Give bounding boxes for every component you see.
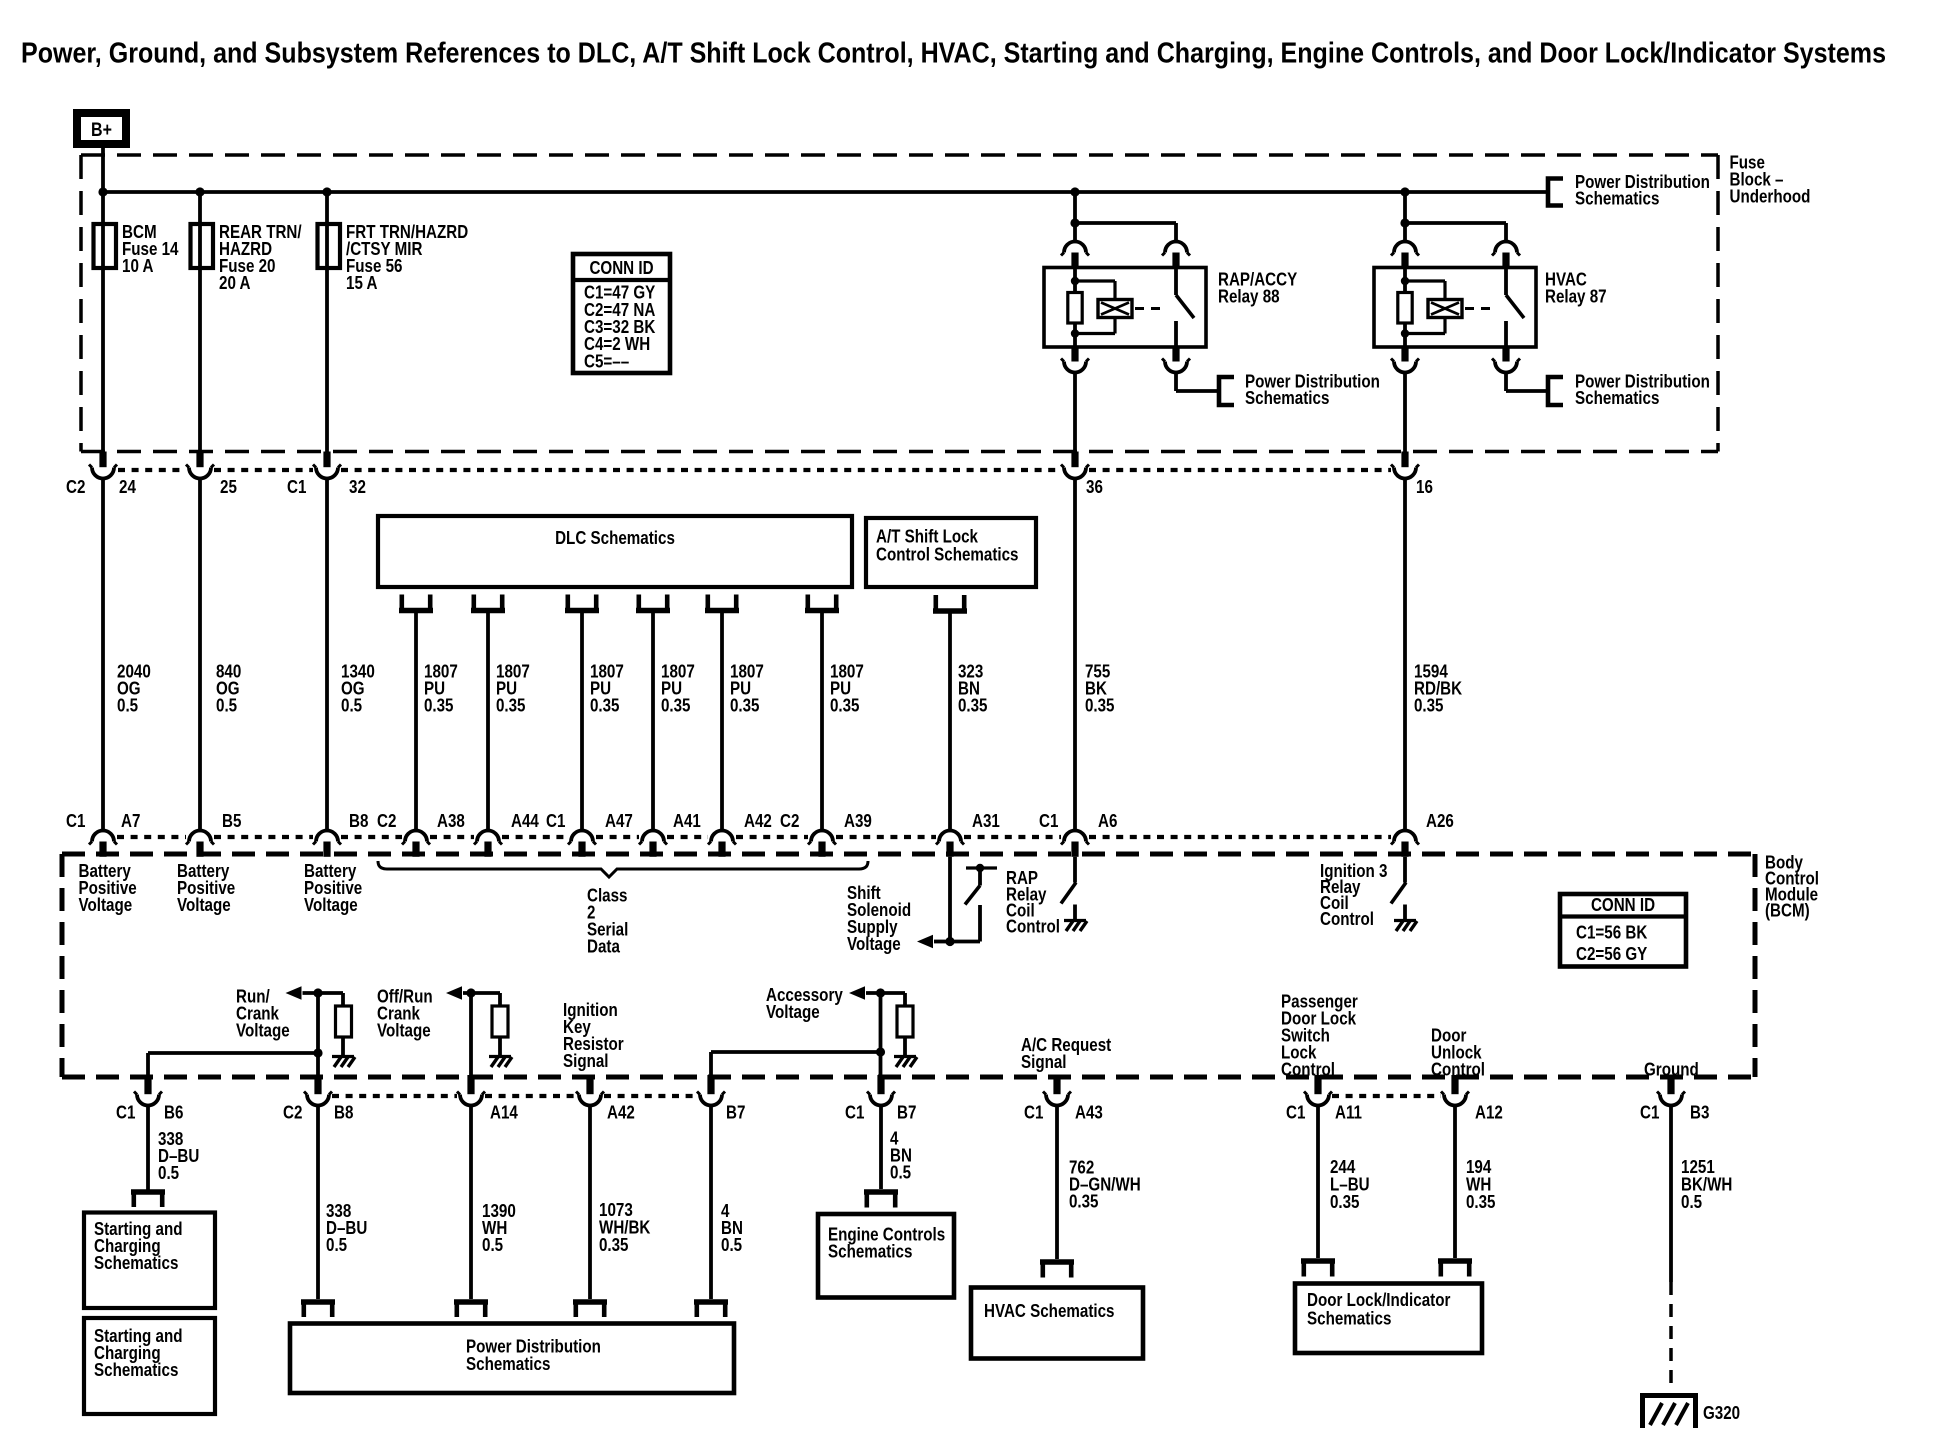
node relay coil top (RAP/ACCY relay 88) <box>1071 277 1079 285</box>
wire 1807 PU x=582 <box>580 613 584 831</box>
svg-text:CONN ID: CONN ID <box>1591 895 1655 915</box>
label wire 1807 PU <box>661 661 695 715</box>
svg-text:0.35: 0.35 <box>830 695 860 715</box>
connector stub A14 to Power Distribution <box>454 1302 488 1317</box>
label wire 1594 RD/BK <box>1414 661 1462 715</box>
label wire 1251 BK/WH 0.5 <box>1681 1157 1732 1212</box>
svg-text:0.35: 0.35 <box>424 695 454 715</box>
svg-text:C5=––: C5=–– <box>584 351 629 371</box>
svg-text:0.35: 0.35 <box>1466 1192 1496 1212</box>
label pin A47 (row2) <box>605 811 633 831</box>
Door Lock/Indicator Schematics box <box>1295 1284 1482 1354</box>
label pin A7 (row2) <box>121 811 140 831</box>
svg-text:Schematics: Schematics <box>94 1360 178 1380</box>
svg-text:Door Lock/Indicator: Door Lock/Indicator <box>1307 1290 1450 1310</box>
connector relay pin right bottom (RAP/ACCY relay 88) <box>1162 347 1190 373</box>
connector terminal x=103 (BCM top) <box>89 831 117 857</box>
svg-text:0.5: 0.5 <box>341 695 362 715</box>
Starting and Charging Schematics box 2 <box>84 1318 215 1414</box>
label pin A6 (row2) <box>1098 811 1117 831</box>
resistor relay coil suppression (HVAC relay 87) <box>1398 293 1412 324</box>
resistor Off/Run pull-up <box>492 993 508 1057</box>
wire HVAC relay out to off-page ref <box>1506 373 1548 392</box>
label wire 762 D-GN/WH 0.35 <box>1069 1157 1141 1211</box>
svg-text:0.35: 0.35 <box>958 695 988 715</box>
relay mechanical dashed link (RAP/ACCY relay 88) <box>1135 307 1167 310</box>
svg-text:C2: C2 <box>283 1103 302 1123</box>
wire 1251 BK/WH (B3) <box>1669 1106 1673 1283</box>
svg-text:Schematics: Schematics <box>828 1241 912 1261</box>
label pin A39 (row2) <box>844 811 872 831</box>
svg-text:0.35: 0.35 <box>590 695 620 715</box>
label pin C1 (row3) <box>116 1103 135 1123</box>
label REAR TRN/HAZRD Fuse 20 20A <box>219 222 302 293</box>
ground A6 driver <box>1064 921 1087 932</box>
relay box (RAP/ACCY relay 88) <box>1044 268 1206 348</box>
connector stub to HVAC Schematics <box>1040 1262 1074 1278</box>
connector DLC pin stub x=416 <box>399 595 433 611</box>
node Accessory-B7 link junction <box>876 1047 885 1056</box>
label wire 1807 PU <box>424 661 458 715</box>
connector terminal x=200 (fuse block bottom) <box>186 452 214 479</box>
node bus-fuse56 <box>322 187 331 196</box>
svg-text:36: 36 <box>1086 477 1103 497</box>
label pin A11 (row3) <box>1335 1103 1362 1123</box>
svg-text:25: 25 <box>220 477 237 497</box>
svg-text:B8: B8 <box>334 1103 353 1123</box>
off-page reference Power Distribution Schematics (under HVAC relay) <box>1548 371 1710 408</box>
svg-text:0.5: 0.5 <box>721 1235 742 1255</box>
connector terminal x=711 (BCM bottom) <box>697 1075 725 1106</box>
relay mechanical dashed link (HVAC relay 87) <box>1465 307 1497 310</box>
svg-text:20 A: 20 A <box>219 273 251 293</box>
wire 338 D-BU (B6) <box>146 1106 150 1190</box>
svg-text:Schematics: Schematics <box>1245 388 1329 408</box>
svg-text:0.5: 0.5 <box>216 695 237 715</box>
label wire 4 BN 0.5 (B7) <box>721 1201 743 1255</box>
label pin 32 <box>349 477 366 497</box>
connector C1/C2 inline dotted line (BCM bottom) <box>332 1094 1441 1098</box>
label pin C2 (row2) <box>377 811 396 831</box>
svg-text:C1=56 BK: C1=56 BK <box>1576 922 1647 942</box>
label C1 (row1) <box>287 477 306 497</box>
svg-text:Schematics: Schematics <box>466 1354 550 1374</box>
label wire 1390 WH 0.5 <box>482 1201 516 1255</box>
svg-text:C1: C1 <box>116 1103 135 1123</box>
svg-text:A14: A14 <box>490 1103 518 1123</box>
relay switch (RAP/ACCY relay 88) <box>1176 268 1194 348</box>
resistor relay coil suppression (RAP/ACCY relay 88) <box>1068 293 1082 324</box>
label wire 194 WH 0.35 <box>1466 1157 1496 1212</box>
connector terminal x=1405 (BCM top) <box>1391 831 1419 857</box>
svg-text:CONN ID: CONN ID <box>589 258 653 278</box>
wire Off/Run to A14 pin <box>469 993 473 1077</box>
wire 323 BN <box>948 613 952 831</box>
wire Run/Crank horizontal <box>303 991 344 995</box>
wire relay top jumper (HVAC relay 87) <box>1405 223 1506 241</box>
connector A/T shift lock pin stub <box>933 595 967 611</box>
label Battery Positive Voltage (A7) <box>79 861 137 915</box>
label wire 1073 WH/BK 0.35 <box>599 1200 650 1255</box>
label FRT TRN/HAZRD Fuse 56 15A <box>346 222 468 293</box>
label pin C1 (row3) <box>1640 1103 1659 1123</box>
wire relay coil parallel branch (RAP/ACCY relay 88) <box>1075 281 1115 334</box>
svg-text:A44: A44 <box>511 811 539 831</box>
node bus-fuse14 <box>98 187 107 196</box>
label pin B7 (row3) <box>897 1103 916 1123</box>
wire Run/Crank to B8 pin <box>316 993 320 1077</box>
label pin A41 (row2) <box>673 811 701 831</box>
connector terminal x=1057 (BCM bottom) <box>1043 1075 1071 1106</box>
connector C1/C2 inline dotted line (BCM top) <box>117 835 1391 839</box>
label Battery Positive Voltage (B8) <box>304 861 362 915</box>
svg-text:A38: A38 <box>437 811 465 831</box>
svg-text:A6: A6 <box>1098 811 1117 831</box>
svg-text:0.35: 0.35 <box>599 1235 629 1255</box>
arrow Run/Crank voltage <box>286 986 302 1000</box>
svg-text:0.35: 0.35 <box>661 695 691 715</box>
wire 244 L-BU (A11) <box>1316 1106 1320 1259</box>
svg-text:Voltage: Voltage <box>847 934 901 954</box>
switch Ignition 3 relay coil control driver <box>1391 883 1406 904</box>
wire 1807 PU x=416 <box>414 613 418 831</box>
svg-text:16: 16 <box>1416 477 1433 497</box>
label Run/Crank Voltage <box>236 986 290 1040</box>
Starting and Charging Schematics box 1 <box>84 1213 215 1309</box>
label Door Unlock Control <box>1431 1025 1485 1079</box>
wire 4 BN (B7) <box>709 1106 713 1300</box>
connector DLC pin stub x=653 <box>636 595 670 611</box>
svg-text:Control: Control <box>1320 909 1374 929</box>
connector relay pin right top (RAP/ACCY relay 88) <box>1162 242 1190 268</box>
svg-text:0.5: 0.5 <box>158 1163 179 1183</box>
wire 1073 WH/BK (A42) <box>588 1106 592 1300</box>
svg-text:0.35: 0.35 <box>496 695 526 715</box>
svg-text:DLC Schematics: DLC Schematics <box>555 528 675 548</box>
label Off/Run Crank Voltage <box>377 986 433 1040</box>
label pin A14 (row3) <box>490 1103 518 1123</box>
relay coil solenoid box (RAP/ACCY relay 88) <box>1098 300 1132 318</box>
connector terminal x=1671 (BCM bottom) <box>1657 1075 1685 1106</box>
svg-text:C1: C1 <box>1286 1103 1305 1123</box>
connector terminal x=822 (BCM top) <box>808 831 836 857</box>
connector terminal x=950 (BCM top) <box>936 831 964 857</box>
label pin B6 (row3) <box>164 1103 183 1123</box>
relay coil wire left (HVAC relay 87) <box>1403 268 1407 348</box>
label pin C1 (row2) <box>66 811 85 831</box>
svg-text:B6: B6 <box>164 1103 183 1123</box>
svg-text:C1: C1 <box>546 811 565 831</box>
wire A26 switch to ground <box>1403 905 1407 921</box>
svg-text:0.5: 0.5 <box>326 1235 347 1255</box>
wire Ignition 3 relay coil control (A26) <box>1403 857 1407 883</box>
label wire 338 D-BU 0.5 (B6) <box>158 1129 199 1183</box>
wire fuse20 vertical <box>198 192 202 452</box>
connector terminal x=1075 (BCM top) <box>1061 831 1089 857</box>
svg-text:Underhood: Underhood <box>1730 186 1811 206</box>
Power Distribution Schematics box <box>290 1324 734 1394</box>
connector stub B8 to Power Distribution <box>301 1302 335 1317</box>
label pin C2 (row3) <box>283 1103 302 1123</box>
wire fuse14 vertical <box>101 192 105 452</box>
off-page reference Power Distribution Schematics (under RAP relay) <box>1219 371 1380 408</box>
connector terminal x=653 (BCM top) <box>639 831 667 857</box>
svg-text:Voltage: Voltage <box>79 895 133 915</box>
switch RAP relay coil control <box>965 864 997 905</box>
arrow Off/Run Crank voltage <box>446 986 462 1000</box>
svg-text:Signal: Signal <box>1021 1052 1067 1072</box>
svg-text:15 A: 15 A <box>346 273 378 293</box>
wire Accessory horizontal <box>866 991 905 995</box>
connector terminal x=416 (BCM top) <box>402 831 430 857</box>
relay switch (HVAC relay 87) <box>1506 268 1524 348</box>
resistor Run/Crank pull-up <box>336 993 352 1057</box>
svg-text:10 A: 10 A <box>122 256 154 276</box>
svg-text:0.35: 0.35 <box>1414 695 1444 715</box>
label pin A42 (row2) <box>744 811 772 831</box>
connector terminal x=1318 (BCM bottom) <box>1304 1075 1332 1106</box>
connector terminal x=881 (BCM bottom) <box>867 1075 895 1106</box>
label pin 24 <box>119 477 136 497</box>
wire 2040 OG <box>101 479 105 832</box>
svg-text:C2=56 GY: C2=56 GY <box>1576 944 1647 964</box>
svg-text:HVAC Schematics: HVAC Schematics <box>984 1301 1115 1321</box>
node relay coil bottom (RAP/ACCY relay 88) <box>1071 329 1079 337</box>
svg-text:C1: C1 <box>1039 811 1058 831</box>
label Ignition 3 Relay Coil Control <box>1320 861 1388 929</box>
connector stub to Engine Controls <box>864 1192 898 1208</box>
node relay coil bottom (HVAC relay 87) <box>1401 329 1409 337</box>
svg-text:Voltage: Voltage <box>236 1020 290 1040</box>
ground Accessory resistor <box>894 1057 917 1068</box>
wire RAP relay coil control (A6) <box>1073 857 1077 883</box>
svg-text:A42: A42 <box>744 811 772 831</box>
wire relay top jumper (RAP/ACCY relay 88) <box>1075 223 1176 241</box>
wire 194 WH (A12) <box>1453 1106 1457 1259</box>
connector terminal x=103 (fuse block bottom) <box>89 452 117 479</box>
Body Control Module dashed boundary <box>62 854 1755 1077</box>
label pin B5 (row2) <box>222 811 241 831</box>
connector DLC pin stub x=722 <box>705 595 739 611</box>
label pin A26 (row2) <box>1426 811 1454 831</box>
connector relay pin right bottom (HVAC relay 87) <box>1492 347 1520 373</box>
svg-text:C1: C1 <box>1640 1103 1659 1123</box>
node relay jumper (RAP/ACCY relay 88) <box>1070 218 1079 227</box>
connector terminal x=590 (BCM bottom) <box>576 1075 604 1106</box>
svg-text:A/T Shift Lock: A/T Shift Lock <box>876 526 979 546</box>
svg-text:B8: B8 <box>349 811 368 831</box>
label wire 1807 PU <box>496 661 530 715</box>
label pin C1 (row2) <box>1039 811 1058 831</box>
wire 1807 PU x=822 <box>820 613 824 831</box>
node bus-hvac-relay <box>1400 187 1409 196</box>
connector relay pin left top (RAP/ACCY relay 88) <box>1061 242 1089 268</box>
label A/C Request Signal <box>1021 1035 1111 1072</box>
label BCM Fuse 14 10A <box>122 222 179 276</box>
label RAP/ACCY Relay 88 <box>1218 269 1297 306</box>
label Body Control Module (BCM) <box>1765 852 1819 920</box>
connector relay pin left bottom (RAP/ACCY relay 88) <box>1061 347 1089 373</box>
arrow Accessory voltage <box>849 986 865 1000</box>
svg-text:Control Schematics: Control Schematics <box>876 544 1019 564</box>
label pin 25 <box>220 477 237 497</box>
label wire 755 BK <box>1085 661 1115 715</box>
svg-text:0.35: 0.35 <box>1330 1192 1360 1212</box>
label Class 2 Serial Data <box>587 885 628 956</box>
diagram title <box>21 38 1886 70</box>
svg-text:24: 24 <box>119 477 136 497</box>
Fuse Block - Underhood dashed boundary <box>81 155 1718 452</box>
svg-text:Schematics: Schematics <box>1575 188 1659 208</box>
label Shift Solenoid Supply Voltage <box>847 883 911 954</box>
svg-text:C1: C1 <box>287 477 306 497</box>
label pin A12 (row3) <box>1475 1103 1503 1123</box>
label pin A38 (row2) <box>437 811 465 831</box>
svg-text:B5: B5 <box>222 811 241 831</box>
label pin B8 (row3) <box>334 1103 353 1123</box>
connector terminal x=488 (BCM top) <box>474 831 502 857</box>
wire 755 BK <box>1073 479 1077 832</box>
wire Off/Run horizontal <box>463 991 500 995</box>
label Accessory Voltage <box>766 985 843 1022</box>
svg-text:32: 32 <box>349 477 366 497</box>
label wire 4 BN 0.5 (C1 B7) <box>890 1128 912 1182</box>
svg-text:A11: A11 <box>1335 1103 1362 1123</box>
connector stub A42 to Power Distribution <box>573 1302 607 1317</box>
relay coil solenoid box (HVAC relay 87) <box>1428 300 1462 318</box>
HVAC Schematics box <box>971 1288 1143 1359</box>
svg-text:B7: B7 <box>897 1103 916 1123</box>
svg-text:Signal: Signal <box>563 1051 609 1071</box>
label Ignition Key Resistor Signal <box>563 1000 624 1071</box>
connector relay pin right top (HVAC relay 87) <box>1492 242 1520 268</box>
fuse REAR TRN/HAZRD Fuse 20 <box>191 224 214 268</box>
label pin A44 (row2) <box>511 811 539 831</box>
connector DLC pin stub x=488 <box>471 595 505 611</box>
DLC Schematics box <box>378 516 852 587</box>
connector C2/C1 inline dotted line (fuse block bottom) <box>118 468 1391 472</box>
node relay coil top (HVAC relay 87) <box>1401 277 1409 285</box>
label G320 <box>1703 1403 1740 1423</box>
wire HVAC relay output down <box>1403 373 1407 452</box>
node relay jumper (HVAC relay 87) <box>1400 218 1409 227</box>
wire 1390 WH (A14) <box>469 1106 473 1300</box>
label Ground <box>1644 1060 1699 1080</box>
arrow shift solenoid supply voltage <box>917 935 933 949</box>
svg-text:Control: Control <box>1281 1059 1335 1079</box>
svg-text:A47: A47 <box>605 811 633 831</box>
wire 4 BN (C1 B7) <box>879 1106 883 1190</box>
svg-text:0.35: 0.35 <box>730 695 760 715</box>
svg-text:C1: C1 <box>66 811 85 831</box>
svg-text:Voltage: Voltage <box>304 895 358 915</box>
svg-text:C2: C2 <box>780 811 799 831</box>
label pin 16 <box>1416 477 1433 497</box>
svg-text:A43: A43 <box>1075 1103 1103 1123</box>
label wire 1807 PU <box>590 661 624 715</box>
svg-text:Control: Control <box>1006 916 1060 936</box>
label wire 840 OG <box>216 661 241 715</box>
switch RAP relay coil control driver <box>1061 883 1076 904</box>
label wire 323 BN <box>958 661 988 715</box>
connector terminal x=327 (BCM top) <box>313 831 341 857</box>
connector terminal x=1455 (BCM bottom) <box>1441 1075 1469 1106</box>
svg-text:0.5: 0.5 <box>890 1162 911 1182</box>
label pin B8 (row2) <box>349 811 368 831</box>
svg-text:0.35: 0.35 <box>1069 1191 1099 1211</box>
svg-text:0.5: 0.5 <box>482 1235 503 1255</box>
wire relay feed left (HVAC relay 87) <box>1403 192 1407 241</box>
svg-text:Relay 88: Relay 88 <box>1218 286 1280 306</box>
svg-text:Schematics: Schematics <box>1307 1308 1391 1328</box>
svg-text:A42: A42 <box>607 1103 635 1123</box>
ground Off/Run resistor <box>489 1057 512 1068</box>
wire 1807 PU x=653 <box>651 613 655 831</box>
connector terminal x=200 (BCM top) <box>186 831 214 857</box>
svg-text:0.5: 0.5 <box>117 695 138 715</box>
connector terminal x=1075 (fuse block bottom) <box>1061 452 1089 479</box>
label wire 338 D-BU 0.5 (B8) <box>326 1201 367 1255</box>
wire 762 D-GN/WH (A43) <box>1055 1106 1059 1260</box>
svg-text:Schematics: Schematics <box>1575 388 1659 408</box>
wire relay feed left (RAP/ACCY relay 88) <box>1073 192 1077 241</box>
svg-text:(BCM): (BCM) <box>1765 900 1810 920</box>
label pin A42 (row3) <box>607 1103 635 1123</box>
label RAP Relay Coil Control <box>1006 868 1060 937</box>
wire relay coil parallel branch (HVAC relay 87) <box>1405 281 1445 334</box>
wire B+ power bus <box>103 190 1548 194</box>
label pin A43 (row3) <box>1075 1103 1103 1123</box>
label pin C2 (row2) <box>780 811 799 831</box>
svg-text:A7: A7 <box>121 811 140 831</box>
svg-text:B3: B3 <box>1690 1103 1709 1123</box>
label Fuse Block - Underhood <box>1730 152 1811 206</box>
wire 338 D-BU (B8) <box>316 1106 320 1300</box>
svg-text:B+: B+ <box>91 120 112 141</box>
connector DLC pin stub x=582 <box>565 595 599 611</box>
label pin C1 (row3) <box>1286 1103 1305 1123</box>
svg-text:Voltage: Voltage <box>377 1020 431 1040</box>
connector stub B7 to Power Distribution <box>694 1302 728 1317</box>
label pin C1 (row3) <box>845 1103 864 1123</box>
connector relay pin left bottom (HVAC relay 87) <box>1391 347 1419 373</box>
connector terminal x=722 (BCM top) <box>708 831 736 857</box>
svg-text:A31: A31 <box>972 811 1000 831</box>
svg-text:Power, Ground, and Subsystem R: Power, Ground, and Subsystem References … <box>21 38 1886 70</box>
svg-text:Schematics: Schematics <box>94 1253 178 1273</box>
svg-text:0.5: 0.5 <box>1681 1192 1702 1212</box>
wire B6 to B8 link <box>148 1053 318 1077</box>
node bus-rap-relay <box>1070 187 1079 196</box>
label pin C1 (row3) <box>1024 1103 1043 1123</box>
label wire 1340 OG <box>341 661 375 715</box>
svg-text:Voltage: Voltage <box>177 895 231 915</box>
svg-text:B7: B7 <box>726 1103 745 1123</box>
relay coil wire left (RAP/ACCY relay 88) <box>1073 268 1077 348</box>
label C2 (row1) <box>66 477 85 497</box>
B+ battery positive terminal symbol <box>77 113 126 144</box>
Engine Controls Schematics box <box>818 1214 954 1298</box>
wire 1594 RD/BK <box>1403 479 1407 832</box>
label pin 36 <box>1086 477 1103 497</box>
connector terminal x=471 (BCM bottom) <box>457 1075 485 1106</box>
wire RAP relay out to off-page ref <box>1176 373 1219 392</box>
wire 1807 PU x=488 <box>486 613 490 831</box>
label wire 1807 PU <box>830 661 864 715</box>
wire 1340 OG <box>325 479 329 832</box>
svg-text:0.35: 0.35 <box>1085 695 1115 715</box>
CONN ID table (fuse block) <box>573 254 670 373</box>
